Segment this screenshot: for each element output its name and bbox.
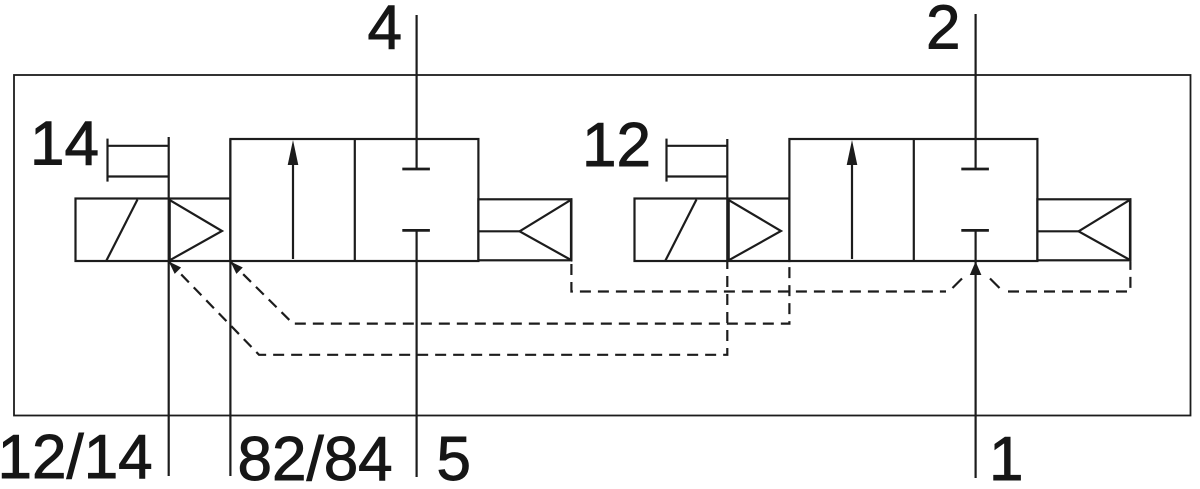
port line 2 <box>974 14 976 169</box>
pilot pick-off branch right <box>990 279 1000 289</box>
dashed pilot channel B (82/84) <box>230 262 789 324</box>
flow arrow V1 <box>292 163 294 259</box>
blocked port 1 seat V2 <box>961 229 989 232</box>
port line 4 <box>416 15 418 169</box>
dashed pilot channel C (port 1 to springs) <box>571 264 946 292</box>
pilot triangle V1 <box>170 200 222 260</box>
blocked port 5 seat V1 <box>402 229 430 232</box>
pilot channel line 82/84 vertical <box>229 139 231 476</box>
blocked port 4 seat V1 <box>402 168 430 171</box>
pilot line 12/14 vertical <box>168 137 170 476</box>
solenoid coil V1 <box>76 199 231 262</box>
pneumatic spring V2 <box>1037 199 1130 260</box>
valve body V1 <box>230 139 478 261</box>
pilot vertical V2 <box>726 139 728 261</box>
pilot triangle V2 <box>729 200 781 260</box>
svg-text:82/84: 82/84 <box>238 425 393 489</box>
manifold outline box <box>14 75 1191 416</box>
pneumatic spring V1 <box>478 199 571 260</box>
pilot pick-off branch left <box>953 279 963 289</box>
port line 1 <box>974 230 976 478</box>
pilot box 14 <box>106 139 108 182</box>
svg-text:14: 14 <box>30 110 99 179</box>
svg-text:1: 1 <box>989 425 1023 489</box>
solenoid coil V2 <box>635 199 790 262</box>
svg-text:5: 5 <box>437 425 471 489</box>
svg-text:12: 12 <box>582 111 651 180</box>
pick-off arrowhead at port 1 <box>970 262 982 276</box>
blocked port 2 seat V2 <box>961 168 989 171</box>
pilot box 12 <box>665 139 667 182</box>
dashed pilot channel A (14 to V2 coil) <box>169 262 728 355</box>
flow arrow V2 <box>851 163 853 259</box>
svg-text:4: 4 <box>368 0 402 63</box>
port line 5 <box>416 230 418 477</box>
valve body V2 <box>789 139 1037 261</box>
svg-text:12/14: 12/14 <box>0 423 153 489</box>
svg-text:2: 2 <box>926 0 960 63</box>
